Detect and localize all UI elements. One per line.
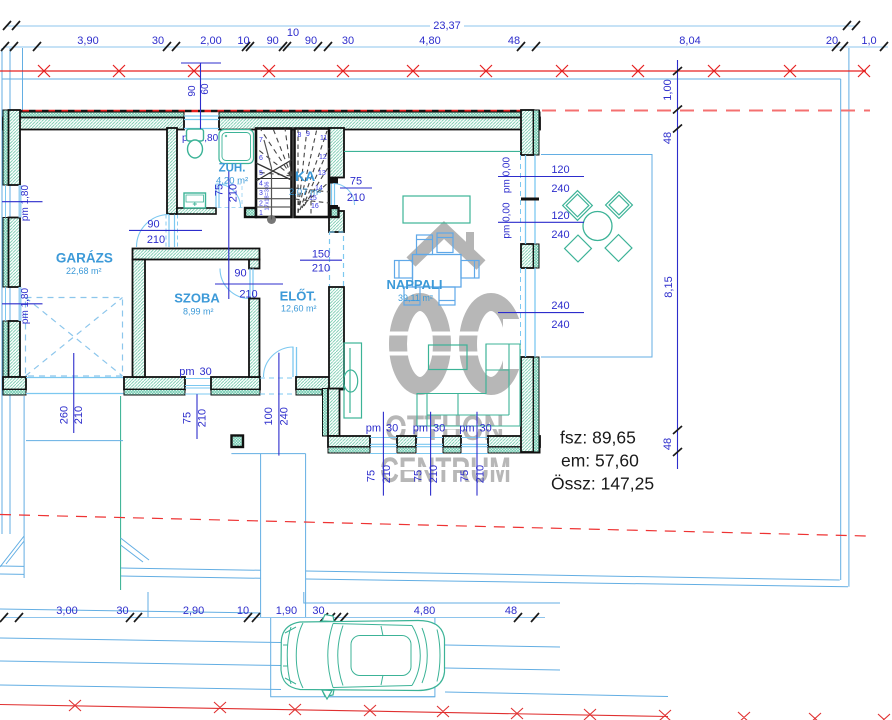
elot/nappali wall lower segment <box>329 287 344 389</box>
front lights <box>283 627 296 684</box>
top chain labels <box>77 27 876 47</box>
glass roof <box>351 636 411 676</box>
svg-text:23,37: 23,37 <box>433 20 461 32</box>
dim line garage door 260/210 <box>73 353 75 433</box>
flight 1 treads <box>256 179 292 208</box>
dim line entry door 100/240 <box>278 353 280 456</box>
bottom dimension chain line <box>3 617 545 619</box>
svg-text:8,15: 8,15 <box>663 276 675 297</box>
roof side lines <box>333 624 412 688</box>
svg-text:75: 75 <box>459 470 471 482</box>
svg-text:4: 4 <box>259 181 263 188</box>
dining chairs <box>395 233 480 305</box>
coffee table <box>429 345 468 370</box>
driveway flare left <box>0 536 24 567</box>
svg-text:75: 75 <box>366 470 378 482</box>
svg-text:fsz: 89,65: fsz: 89,65 <box>560 428 636 448</box>
right wall top corner segment <box>521 110 534 155</box>
ZUH door leaf and arc <box>216 184 219 208</box>
svg-text:1,00: 1,00 <box>662 79 674 100</box>
flight 2 step numbers <box>298 131 328 210</box>
right wall pier between windows <box>521 244 534 268</box>
svg-text:39,11 m²: 39,11 m² <box>398 293 433 303</box>
svg-text:8,99 m²: 8,99 m² <box>183 307 214 317</box>
ZUH left wall <box>167 128 177 214</box>
svg-text:16: 16 <box>311 203 319 210</box>
flight 1 step numbers <box>259 137 271 217</box>
svg-text:90: 90 <box>147 219 159 231</box>
right vertical dimension line <box>677 60 679 469</box>
svg-text:30: 30 <box>480 423 492 435</box>
ZUH door dashed opening <box>216 184 242 208</box>
svg-text:210: 210 <box>239 289 257 301</box>
svg-text:90: 90 <box>267 35 279 47</box>
svg-text:SZOBA: SZOBA <box>174 291 220 306</box>
elot/nappali wall mid segment <box>329 211 344 232</box>
pillar block right of stairs <box>331 208 339 217</box>
svg-text:ZUH.: ZUH. <box>219 163 246 175</box>
svg-text:75: 75 <box>182 412 194 424</box>
svg-text:90: 90 <box>305 35 317 47</box>
left wall segment 3 <box>3 321 9 395</box>
driveway apron line <box>26 440 123 442</box>
dim line KA door 75/210 <box>340 187 372 189</box>
svg-text:210: 210 <box>475 465 487 483</box>
right window labels <box>551 164 569 331</box>
svg-text:4,80: 4,80 <box>414 605 435 617</box>
red dashed setback line upper right <box>542 110 870 112</box>
svg-text:240: 240 <box>551 319 569 331</box>
svg-text:12: 12 <box>319 154 327 161</box>
svg-text:2,90: 2,90 <box>183 605 204 617</box>
svg-text:1,90: 1,90 <box>276 605 297 617</box>
site boundary left double line <box>2 48 10 534</box>
svg-text:pm 1,80: pm 1,80 <box>20 287 31 324</box>
svg-text:150: 150 <box>312 249 330 261</box>
szoba left wall <box>133 260 146 378</box>
svg-text:1,0: 1,0 <box>861 35 876 47</box>
dim lines garage left windows pm 1,80 <box>2 202 43 304</box>
porch pillar <box>232 436 244 448</box>
dim line szoba door 90/210 <box>215 283 283 285</box>
svg-text:75: 75 <box>413 470 425 482</box>
svg-text:30: 30 <box>312 605 324 617</box>
car body <box>281 615 445 700</box>
dim line corridor door 90/210 <box>129 229 202 231</box>
ZUH bottom wall <box>177 208 216 214</box>
svg-text:240: 240 <box>551 300 569 312</box>
toilet <box>187 129 204 158</box>
svg-text:8: 8 <box>298 132 302 139</box>
dim ticks top <box>1 21 888 51</box>
kitchen counter edge line <box>344 150 521 152</box>
dining table <box>413 255 462 288</box>
svg-text:48: 48 <box>508 35 520 47</box>
svg-text:48: 48 <box>662 132 674 144</box>
szoba right wall lower segment <box>249 299 260 378</box>
street line 4 <box>0 685 668 697</box>
svg-text:2,07 m²: 2,07 m² <box>289 187 321 198</box>
left wall window 1 <box>19 185 22 218</box>
red street axis line with X marks <box>0 700 890 720</box>
nappali front window labels <box>366 423 492 435</box>
svg-text:pm 1,80: pm 1,80 <box>20 184 31 221</box>
red utility line with X marks <box>0 65 870 77</box>
right dim labels rotated <box>662 79 675 450</box>
fireplace cabinet <box>344 343 362 418</box>
svg-text:1: 1 <box>259 210 263 217</box>
stair flight 2 box <box>295 129 330 218</box>
right wall terrace door 240/240 <box>526 268 536 357</box>
dim 90/60 at zuh window <box>181 63 221 129</box>
witness line left of building <box>22 48 24 110</box>
driveway flare right <box>121 538 149 562</box>
site boundary bottom sloped double line <box>0 566 840 580</box>
terrace chairs <box>563 191 633 262</box>
site boundary top line <box>2 78 841 80</box>
svg-text:8,04: 8,04 <box>679 35 700 47</box>
svg-text:210: 210 <box>197 409 209 427</box>
washbasin <box>184 193 206 208</box>
entry door opening dashed <box>260 378 296 394</box>
right wall bottom corner segment <box>521 357 534 452</box>
svg-text:12,60 m²: 12,60 m² <box>281 304 317 314</box>
svg-text:5: 5 <box>259 170 263 177</box>
svg-text:pm: pm <box>366 423 381 435</box>
red dashed setback line across middle <box>0 515 867 537</box>
garage car space dashed box with X <box>26 298 123 377</box>
svg-text:60: 60 <box>200 83 211 95</box>
parking space left edge <box>271 618 435 697</box>
svg-text:3,90: 3,90 <box>77 35 98 47</box>
sofa L-shape <box>417 344 520 426</box>
porch jog wall going down <box>323 389 329 437</box>
dim line zuh door 75/210 <box>228 171 230 299</box>
top wall insulation dashed line black/red <box>3 110 540 112</box>
front wall right of entry door <box>296 377 344 390</box>
left wall segment 1 <box>3 110 9 185</box>
svg-text:22,68 m²: 22,68 m² <box>66 266 102 276</box>
dim line elot window 150/210 <box>300 259 342 261</box>
front wall between window and entry door <box>211 377 260 390</box>
svg-text:2,00: 2,00 <box>200 35 221 47</box>
b-pillar <box>381 626 383 685</box>
top wall right segment <box>219 112 540 118</box>
driveway right edge <box>120 396 122 590</box>
flight 2 dashed winder treads <box>295 129 329 216</box>
svg-text:240: 240 <box>279 407 291 425</box>
svg-text:KA: KA <box>295 168 315 184</box>
entry door leaf <box>293 347 297 377</box>
watermark letter C <box>468 302 514 386</box>
entry path left edge <box>260 454 262 617</box>
svg-text:13: 13 <box>318 170 326 177</box>
svg-text:210: 210 <box>381 465 393 483</box>
svg-text:GARÁZS: GARÁZS <box>56 251 113 266</box>
left wall segment 2 <box>3 218 9 288</box>
svg-text:240: 240 <box>551 229 569 241</box>
watermark letter O <box>398 302 442 386</box>
svg-text:11: 11 <box>320 135 327 142</box>
top wall left segment <box>3 112 184 118</box>
pillar block left of stairs <box>245 208 256 217</box>
svg-text:48: 48 <box>662 438 674 450</box>
svg-text:75: 75 <box>350 176 362 188</box>
street line 1 <box>0 609 261 613</box>
svg-text:ELŐT.: ELŐT. <box>280 289 317 304</box>
watermark stencil slits <box>383 332 528 336</box>
svg-text:6: 6 <box>259 155 263 162</box>
svg-text:pm: pm <box>459 423 474 435</box>
szoba right wall upper stub <box>249 260 260 269</box>
mirrors <box>322 615 334 622</box>
entry door swing arc <box>264 347 294 377</box>
garage front wall left stub <box>3 377 26 390</box>
KA door leaf and arc <box>332 184 335 206</box>
svg-text:210: 210 <box>347 192 365 204</box>
szoba door leaf and arc <box>250 269 253 299</box>
entry path right edge <box>305 454 307 617</box>
svg-text:120: 120 <box>551 210 569 222</box>
elot 150 window opening dashed <box>330 232 344 287</box>
dim lines nappali front windows <box>383 412 477 496</box>
svg-text:90: 90 <box>234 268 246 280</box>
flight 1 winder cut lines <box>256 160 292 181</box>
svg-text:210: 210 <box>73 406 85 424</box>
elot/nappali wall upper segment <box>329 128 344 178</box>
svg-text:pm 0,00: pm 0,00 <box>502 156 513 193</box>
svg-text:17x18=3,06: 17x18=3,06 <box>265 182 271 211</box>
top dimension chain line <box>3 46 888 48</box>
svg-text:30: 30 <box>152 35 164 47</box>
svg-text:NAPPALI: NAPPALI <box>386 277 442 292</box>
svg-text:10: 10 <box>287 27 299 39</box>
szoba top wall <box>133 249 260 260</box>
flight 1 winder dashed treads <box>256 129 292 177</box>
right wall windows 120/240 <box>526 155 536 244</box>
nappali front wall pier 2 <box>397 436 416 447</box>
garage door opening lines <box>26 378 124 394</box>
svg-text:CENTRUM: CENTRUM <box>380 451 511 490</box>
svg-text:7: 7 <box>259 137 263 144</box>
svg-text:30: 30 <box>433 423 445 435</box>
porch slab edge <box>231 453 305 455</box>
watermark roof chevron <box>411 230 481 265</box>
svg-text:3: 3 <box>259 190 263 197</box>
svg-text:30: 30 <box>116 605 128 617</box>
svg-text:9: 9 <box>306 131 310 138</box>
stair walk line with start dot <box>267 215 276 224</box>
svg-text:2: 2 <box>259 201 263 208</box>
shower tray <box>219 130 254 164</box>
site boundary right double line <box>840 79 842 580</box>
svg-text:3,00: 3,00 <box>56 605 77 617</box>
svg-text:4,80: 4,80 <box>419 35 440 47</box>
parking space lines <box>304 592 560 603</box>
nappali front wall pier 3 <box>443 436 461 447</box>
street line 2 <box>0 638 560 647</box>
KA door blocks <box>330 178 339 184</box>
svg-text:10: 10 <box>237 605 249 617</box>
trunk <box>437 630 440 682</box>
hood lines <box>296 623 303 688</box>
svg-text:100: 100 <box>263 407 275 425</box>
svg-text:pm: pm <box>179 366 194 378</box>
corridor door swing arc <box>137 215 170 248</box>
terrace outline <box>541 155 652 358</box>
svg-text:pm: pm <box>413 423 428 435</box>
front wall under szoba left part <box>124 377 185 390</box>
svg-text:pm 0,00: pm 0,00 <box>502 202 513 239</box>
svg-text:4,20 m²: 4,20 m² <box>216 176 248 187</box>
svg-text:30: 30 <box>386 423 398 435</box>
dim lines right windows <box>498 177 584 313</box>
svg-text:210: 210 <box>428 465 440 483</box>
svg-text:30: 30 <box>342 35 354 47</box>
svg-text:240: 240 <box>551 183 569 195</box>
svg-text:10: 10 <box>237 35 249 47</box>
svg-text:30: 30 <box>200 366 212 378</box>
svg-text:210: 210 <box>312 263 330 275</box>
svg-text:120: 120 <box>551 164 569 176</box>
svg-text:210: 210 <box>147 234 165 246</box>
driveway left edge <box>23 396 25 578</box>
overall dimension line 23,37 <box>7 25 855 27</box>
left wall window 2 <box>19 287 22 321</box>
kitchen island <box>403 196 470 223</box>
corridor door leaf <box>169 215 175 248</box>
summary text <box>551 428 654 494</box>
nappali front wall pier 1 <box>328 436 370 447</box>
nappali front windows <box>370 438 488 454</box>
svg-text:90: 90 <box>187 85 198 97</box>
szoba window in front wall <box>185 379 211 395</box>
terrace round table <box>583 212 612 241</box>
svg-text:em: 57,60: em: 57,60 <box>561 451 639 471</box>
rear window <box>412 626 420 686</box>
street line 3 <box>0 661 560 670</box>
ZUH top window <box>184 116 219 129</box>
stair flight 1 box <box>256 129 292 218</box>
svg-text:Össz: 147,25: Össz: 147,25 <box>551 474 654 494</box>
svg-text:260: 260 <box>59 406 71 424</box>
bottom chain labels <box>56 605 517 617</box>
svg-text:20: 20 <box>826 35 838 47</box>
windshield <box>328 624 333 688</box>
svg-text:48: 48 <box>505 605 517 617</box>
nappali front wall right segment <box>488 436 540 447</box>
dim line szoba front window <box>196 394 198 439</box>
